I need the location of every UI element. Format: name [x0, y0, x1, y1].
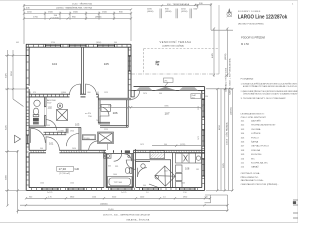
svg-text:530: 530	[205, 196, 208, 198]
svg-text:1150: 1150	[27, 12, 32, 14]
svg-text:105: 105	[104, 62, 109, 66]
svg-text:1500: 1500	[40, 183, 44, 185]
svg-text:TYP 160: TYP 160	[114, 182, 123, 184]
entry door arc	[31, 128, 46, 143]
svg-text:ŠATNA: ŠATNA	[251, 141, 259, 144]
wc room door arc	[138, 168, 147, 177]
terrace dashed outline top	[144, 48, 219, 50]
svg-text:13,00: 13,00	[84, 138, 90, 140]
svg-text:ZÁDVEŘÍ: ZÁDVEŘÍ	[251, 120, 261, 123]
partition between 104 and 105	[82, 47, 84, 94]
dim specks above south wall	[40, 169, 199, 187]
svg-text:[ZÁMKOVÁ DLAŽBA]: [ZÁMKOVÁ DLAŽBA]	[163, 45, 184, 48]
left vertical dim line outer	[6, 50, 8, 207]
svg-text:106: 106	[113, 111, 118, 115]
svg-text:2%: 2%	[164, 80, 167, 82]
interior dim line across living	[99, 106, 203, 108]
svg-text:(14900) · NÁNÁŠENÁ FAS. OMÍTKA: (14900) · NÁNÁŠENÁ FAS. OMÍTKA	[56, 7, 92, 10]
svg-text:(14600): (14600)	[100, 203, 108, 205]
svg-text:VENKOVNÍ TERASA: VENKOVNÍ TERASA	[160, 40, 192, 44]
svg-text:1600: 1600	[73, 12, 79, 14]
svg-text:ČERCHOVANĚ NEJSOU SOUČÁSTÍ DOD: ČERCHOVANĚ NEJSOU SOUČÁSTÍ DODÁVKY DODAV…	[243, 92, 298, 95]
wall left (west)	[26, 44, 29, 190]
svg-text:3800: 3800	[70, 196, 74, 198]
svg-text:(2470): (2470)	[180, 144, 186, 146]
bathroom door arc	[126, 160, 135, 169]
label box 2x2.5 with leader	[191, 94, 201, 99]
kitchen appliances west column	[176, 165, 183, 187]
extension lines from top tiers to wall	[24, 4, 198, 44]
svg-text:900: 900	[114, 42, 117, 44]
bottom dim tier 2	[20, 204, 229, 206]
svg-text:900: 900	[143, 185, 146, 187]
dimension line top tier 3 with ticks	[23, 12, 132, 14]
svg-text:2225: 2225	[104, 129, 108, 131]
window left wall 1 (ladder)	[26, 55, 29, 57]
svg-text:PŘÍSLUŠENSTVÍ :: PŘÍSLUŠENSTVÍ :	[241, 176, 260, 179]
toilet small bath	[33, 108, 38, 115]
svg-text:LARGO Line 122/287ok: LARGO Line 122/287ok	[238, 14, 288, 20]
svg-text:600: 600	[108, 166, 111, 168]
svg-text:ZÁBRADLÍ VÝŠKY 1000: ZÁBRADLÍ VÝŠKY 1000	[224, 67, 227, 92]
svg-text:OBÝVACÍ POKOJ: OBÝVACÍ POKOJ	[251, 145, 269, 148]
bathroom west wall	[104, 150, 106, 187]
svg-text:(3650): (3650)	[96, 42, 102, 44]
corridor south wall	[98, 122, 110, 124]
svg-text:1150: 1150	[181, 8, 186, 10]
window right wall 3	[202, 159, 204, 176]
scan border top	[0, 0, 298, 2]
svg-text:900: 900	[40, 148, 43, 150]
window bottom wall wc	[143, 188, 159, 190]
svg-text:2x1.25: 2x1.25	[121, 192, 126, 194]
svg-text:POZNÁMKA:: POZNÁMKA:	[241, 77, 254, 80]
right top dim connector	[211, 29, 233, 31]
svg-text:1500: 1500	[48, 12, 54, 14]
corner stamp fragment	[293, 200, 298, 218]
chimney shaft hatched	[150, 151, 165, 159]
svg-text:(RD BEZ PODSKLEPENÍ): (RD BEZ PODSKLEPENÍ)	[238, 23, 264, 26]
window right wall 1	[202, 100, 204, 118]
wall NW-block east (room 105 right wall at terrace)	[128, 44, 131, 98]
right top vertical dim line B	[226, 27, 228, 77]
svg-text:3750: 3750	[51, 42, 55, 44]
left dim connectors	[5, 56, 26, 191]
svg-text:(4150): (4150)	[181, 11, 188, 13]
svg-text:M 1:50: M 1:50	[241, 42, 249, 46]
bathroom door arc from corridor	[114, 153, 122, 161]
corridor west wall	[98, 94, 100, 123]
svg-text:4150: 4150	[219, 124, 221, 130]
svg-text:SAMON. CELK. + KOTVENÁ DESKA: SAMON. CELK. + KOTVENÁ DESKA	[229, 58, 232, 95]
hall east wall	[79, 127, 81, 150]
svg-text:108: 108	[185, 167, 190, 171]
svg-text:(4600): (4600)	[225, 53, 227, 60]
svg-text:900: 900	[29, 196, 32, 198]
window top wall 2	[70, 45, 87, 47]
svg-text:2470: 2470	[143, 93, 147, 95]
wall bottom (south)	[26, 188, 204, 191]
scan border bottom	[0, 221, 298, 223]
svg-text:KUCHYNě: KUCHYNě	[251, 154, 262, 156]
svg-text:CHODBA: CHODBA	[251, 128, 261, 131]
svg-text:LEGENDA MÍSTNOSTÍ :: LEGENDA MÍSTNOSTÍ :	[241, 113, 265, 116]
wall below tech area	[44, 132, 67, 135]
dim line inside living above wall	[152, 145, 204, 147]
svg-text:2785: 2785	[108, 106, 112, 108]
svg-text:2950: 2950	[183, 196, 187, 198]
roof overhang dim top right	[194, 3, 212, 30]
terrace extension lines dropping to terrace	[160, 9, 192, 19]
svg-text:975: 975	[33, 92, 36, 94]
svg-text:1.50: 1.50	[183, 192, 187, 194]
svg-text:1475: 1475	[140, 144, 144, 146]
svg-text:6225: 6225	[5, 124, 7, 130]
cross wall left segment	[29, 150, 106, 153]
svg-text:2x1.25: 2x1.25	[47, 192, 52, 194]
glazing trapezoid window right	[179, 87, 198, 90]
svg-text:OBESTAVěNÝ PROSTOR (PŘÍZEMÍ) :: OBESTAVěNÝ PROSTOR (PŘÍZEMÍ) :	[241, 183, 279, 186]
bottom dim tier 1	[25, 197, 211, 199]
window 105 east	[129, 56, 131, 71]
svg-text:900: 900	[164, 144, 167, 146]
svg-text:KOUPELNA, WC: KOUPELNA, WC	[251, 162, 268, 165]
svg-text:OMLÁTKA – ŠTUKOVÁ: OMLÁTKA – ŠTUKOVÁ	[126, 218, 150, 221]
corner connector wall at 131-134	[131, 90, 134, 97]
corner shower diamond	[141, 164, 176, 188]
north arrow icon	[227, 9, 232, 18]
svg-text:101: 101	[49, 142, 54, 146]
svg-text:15,50 · TŘÍVRSTVÁ: 15,50 · TŘÍVRSTVÁ	[72, 3, 92, 6]
wardrobe room 106	[101, 104, 111, 111]
svg-text:1475: 1475	[198, 136, 200, 140]
room label garage 112	[57, 166, 74, 171]
svg-text:1500: 1500	[181, 183, 185, 185]
svg-text:JÍDELNA: JÍDELNA	[251, 149, 261, 152]
bottom tier1 labels	[29, 196, 208, 198]
svg-text:OBYTNÁ PLOCHA :: OBYTNÁ PLOCHA :	[241, 172, 261, 175]
dimension line top tier 2	[23, 8, 132, 10]
extension line xbox to bath	[106, 144, 108, 150]
svg-text:TUV: TUV	[47, 102, 52, 104]
bathtub	[108, 177, 133, 188]
svg-text:800: 800	[88, 92, 91, 94]
cross wall hatch ticks	[31, 150, 203, 153]
dimension line top tier 4 with ticks	[23, 17, 132, 19]
svg-text:1185: 1185	[147, 8, 152, 10]
glazing trapezoid window left	[136, 87, 153, 90]
svg-text:4425: 4425	[212, 52, 214, 58]
elevation box 13.00	[82, 135, 95, 140]
left lower vertical dim	[17, 150, 19, 214]
svg-text:ZDIVO TL. 500 – VÁPENOPÍSKOVÁ: ZDIVO TL. 500 – VÁPENOPÍSKOVÁ CIHLA KM	[103, 214, 150, 217]
washbasin in bathroom	[104, 154, 112, 158]
kitchen counter top row	[176, 153, 202, 163]
bathroom east wall	[134, 149, 136, 188]
svg-text:[17,30 m2]: [17,30 m2]	[60, 173, 71, 175]
bottom right dim corner	[205, 195, 228, 211]
terrace edge line right	[218, 5, 220, 74]
window bottom wall garage 1	[42, 188, 58, 190]
dimension line top tier 1	[23, 4, 199, 6]
svg-text:(4300): (4300)	[165, 11, 172, 13]
wall top (north, rooms 104-105)	[26, 44, 131, 47]
svg-text:1500: 1500	[102, 12, 108, 14]
svg-text:103: 103	[75, 123, 80, 127]
corridor door arc east of hall	[66, 134, 79, 147]
svg-text:107: 107	[165, 111, 170, 115]
svg-text:900: 900	[159, 93, 162, 95]
svg-text:A PAK POTŘEBA KÓTOVÁNÍ ZAOKROU: A PAK POTŘEBA KÓTOVÁNÍ ZAOKROUHLENA NA '…	[243, 85, 298, 88]
attic ladder X-square	[57, 110, 68, 121]
corner shower in bathroom	[124, 154, 131, 161]
window bottom wall bath	[111, 188, 132, 190]
svg-text:POKOJ: POKOJ	[251, 137, 258, 139]
room 106 walls	[100, 100, 128, 128]
door arc in cross wall x88-98	[89, 141, 98, 150]
svg-text:445: 445	[16, 42, 19, 44]
svg-text:530: 530	[205, 96, 208, 98]
svg-text:17,30: 17,30	[59, 167, 67, 171]
svg-text:zn 2%: zn 2%	[85, 113, 91, 115]
dark tile block	[125, 150, 130, 153]
svg-text:102: 102	[48, 106, 53, 110]
tech room door arc	[46, 120, 57, 131]
svg-text:104: 104	[52, 62, 57, 66]
svg-text:ČÍSLO ÚČEL MÍSTNOSTI: ČÍSLO ÚČEL MÍSTNOSTI	[241, 116, 267, 119]
svg-text:1.75: 1.75	[48, 196, 52, 198]
svg-text:3. TECHNICKÉ ŠACHTY JSOU VYNEC: 3. TECHNICKÉ ŠACHTY JSOU VYNECHÁNY	[241, 97, 287, 100]
svg-text:15,50: 15,50	[108, 209, 114, 211]
svg-text:+0,000: +0,000	[57, 130, 65, 132]
svg-text:2400: 2400	[140, 196, 144, 198]
window bottom wall garage 2	[68, 188, 84, 190]
vpust label box	[164, 78, 174, 82]
svg-text:1.0: 1.0	[146, 192, 149, 194]
bathroom top door gap	[114, 150, 122, 153]
svg-text:1150: 1150	[92, 196, 96, 198]
window left wall 3 (ladder)	[26, 156, 29, 158]
svg-text:3900: 3900	[5, 174, 7, 180]
window top wall 3	[98, 45, 115, 47]
hall-garage door arc	[46, 137, 59, 150]
svg-text:(14600): (14600)	[231, 107, 233, 115]
svg-text:RODINNÝ DOMEK: RODINNÝ DOMEK	[238, 10, 261, 13]
svg-text:700: 700	[96, 120, 99, 122]
wc room east wall	[171, 153, 173, 188]
svg-text:1950: 1950	[70, 130, 74, 132]
door arc room 104	[70, 84, 81, 95]
svg-text:1750: 1750	[33, 17, 39, 19]
right top vertical dim line A	[213, 27, 215, 77]
svg-text:(4600): (4600)	[147, 11, 154, 13]
svg-text:LOŽNICE: LOŽNICE	[251, 132, 261, 135]
entry direction triangle	[15, 135, 21, 142]
window bottom wall kitchen	[180, 188, 196, 190]
small bath walls	[29, 97, 81, 128]
svg-text:1.0: 1.0	[163, 196, 166, 198]
drain symbol FX	[156, 61, 160, 66]
corridor door arc	[100, 107, 109, 116]
svg-text:1600: 1600	[113, 174, 117, 176]
svg-text:GARÁŽ: GARÁŽ	[251, 166, 259, 169]
tiny dim specks	[16, 42, 208, 194]
scan border right	[296, 0, 298, 223]
wall right (east)	[202, 87, 205, 191]
svg-text:WC: WC	[251, 158, 255, 160]
boiler circle	[57, 103, 62, 108]
svg-text:ZASTAVěNÁ PLOCHA :: ZASTAVěNÁ PLOCHA :	[241, 179, 265, 182]
terrace door arc living room	[131, 91, 140, 100]
svg-text:585: 585	[196, 169, 199, 171]
door stub	[66, 128, 68, 133]
svg-text:900: 900	[47, 125, 50, 127]
glazing door triangles	[155, 87, 166, 91]
wall south of rooms 104/105 (corridor wall)	[29, 94, 131, 100]
washbasin small bath	[34, 100, 40, 106]
svg-text:3625: 3625	[223, 162, 225, 168]
water heater dark rects	[33, 118, 39, 121]
svg-text:3150: 3150	[11, 70, 13, 76]
left vertical dim line inner with jog	[12, 50, 24, 107]
svg-text:2450: 2450	[72, 148, 76, 150]
svg-text:TECHNICKÁ MÍSTNOST: TECHNICKÁ MÍSTNOST	[251, 124, 276, 127]
window right wall 2	[202, 130, 204, 146]
svg-text:3200: 3200	[112, 196, 116, 198]
svg-text:3475: 3475	[5, 72, 7, 78]
entry door opening left wall	[26, 134, 29, 136]
window top wall 1	[46, 45, 61, 47]
corridor wall rungs	[32, 94, 68, 97]
svg-text:2525: 2525	[198, 106, 200, 110]
wc in bathroom	[125, 168, 129, 174]
svg-text:1525: 1525	[104, 92, 108, 94]
bathroom tile lining	[107, 154, 133, 187]
terrace dash-dot bottom line	[131, 73, 219, 75]
svg-text:650 · TERMOFASÁDA: 650 · TERMOFASÁDA	[167, 3, 190, 6]
svg-text:(4900): (4900)	[95, 17, 102, 19]
svg-text:800: 800	[63, 92, 66, 94]
wc room inner wall	[136, 160, 172, 162]
door opening in bath right wall	[44, 107, 46, 116]
door arc room 105	[86, 84, 97, 95]
terrace dashed outline left	[143, 49, 145, 75]
svg-text:6985: 6985	[165, 106, 169, 108]
svg-text:(1050): (1050)	[53, 17, 60, 19]
bottom dim tier 3	[17, 210, 229, 212]
svg-text:10150 · JIŽNÍ FASÁDA: 10150 · JIŽNÍ FASÁDA	[226, 122, 229, 145]
wall living room north (glazed, to terrace)	[134, 87, 205, 91]
cross wall right segment	[134, 150, 205, 152]
svg-text:1500: 1500	[70, 183, 74, 185]
